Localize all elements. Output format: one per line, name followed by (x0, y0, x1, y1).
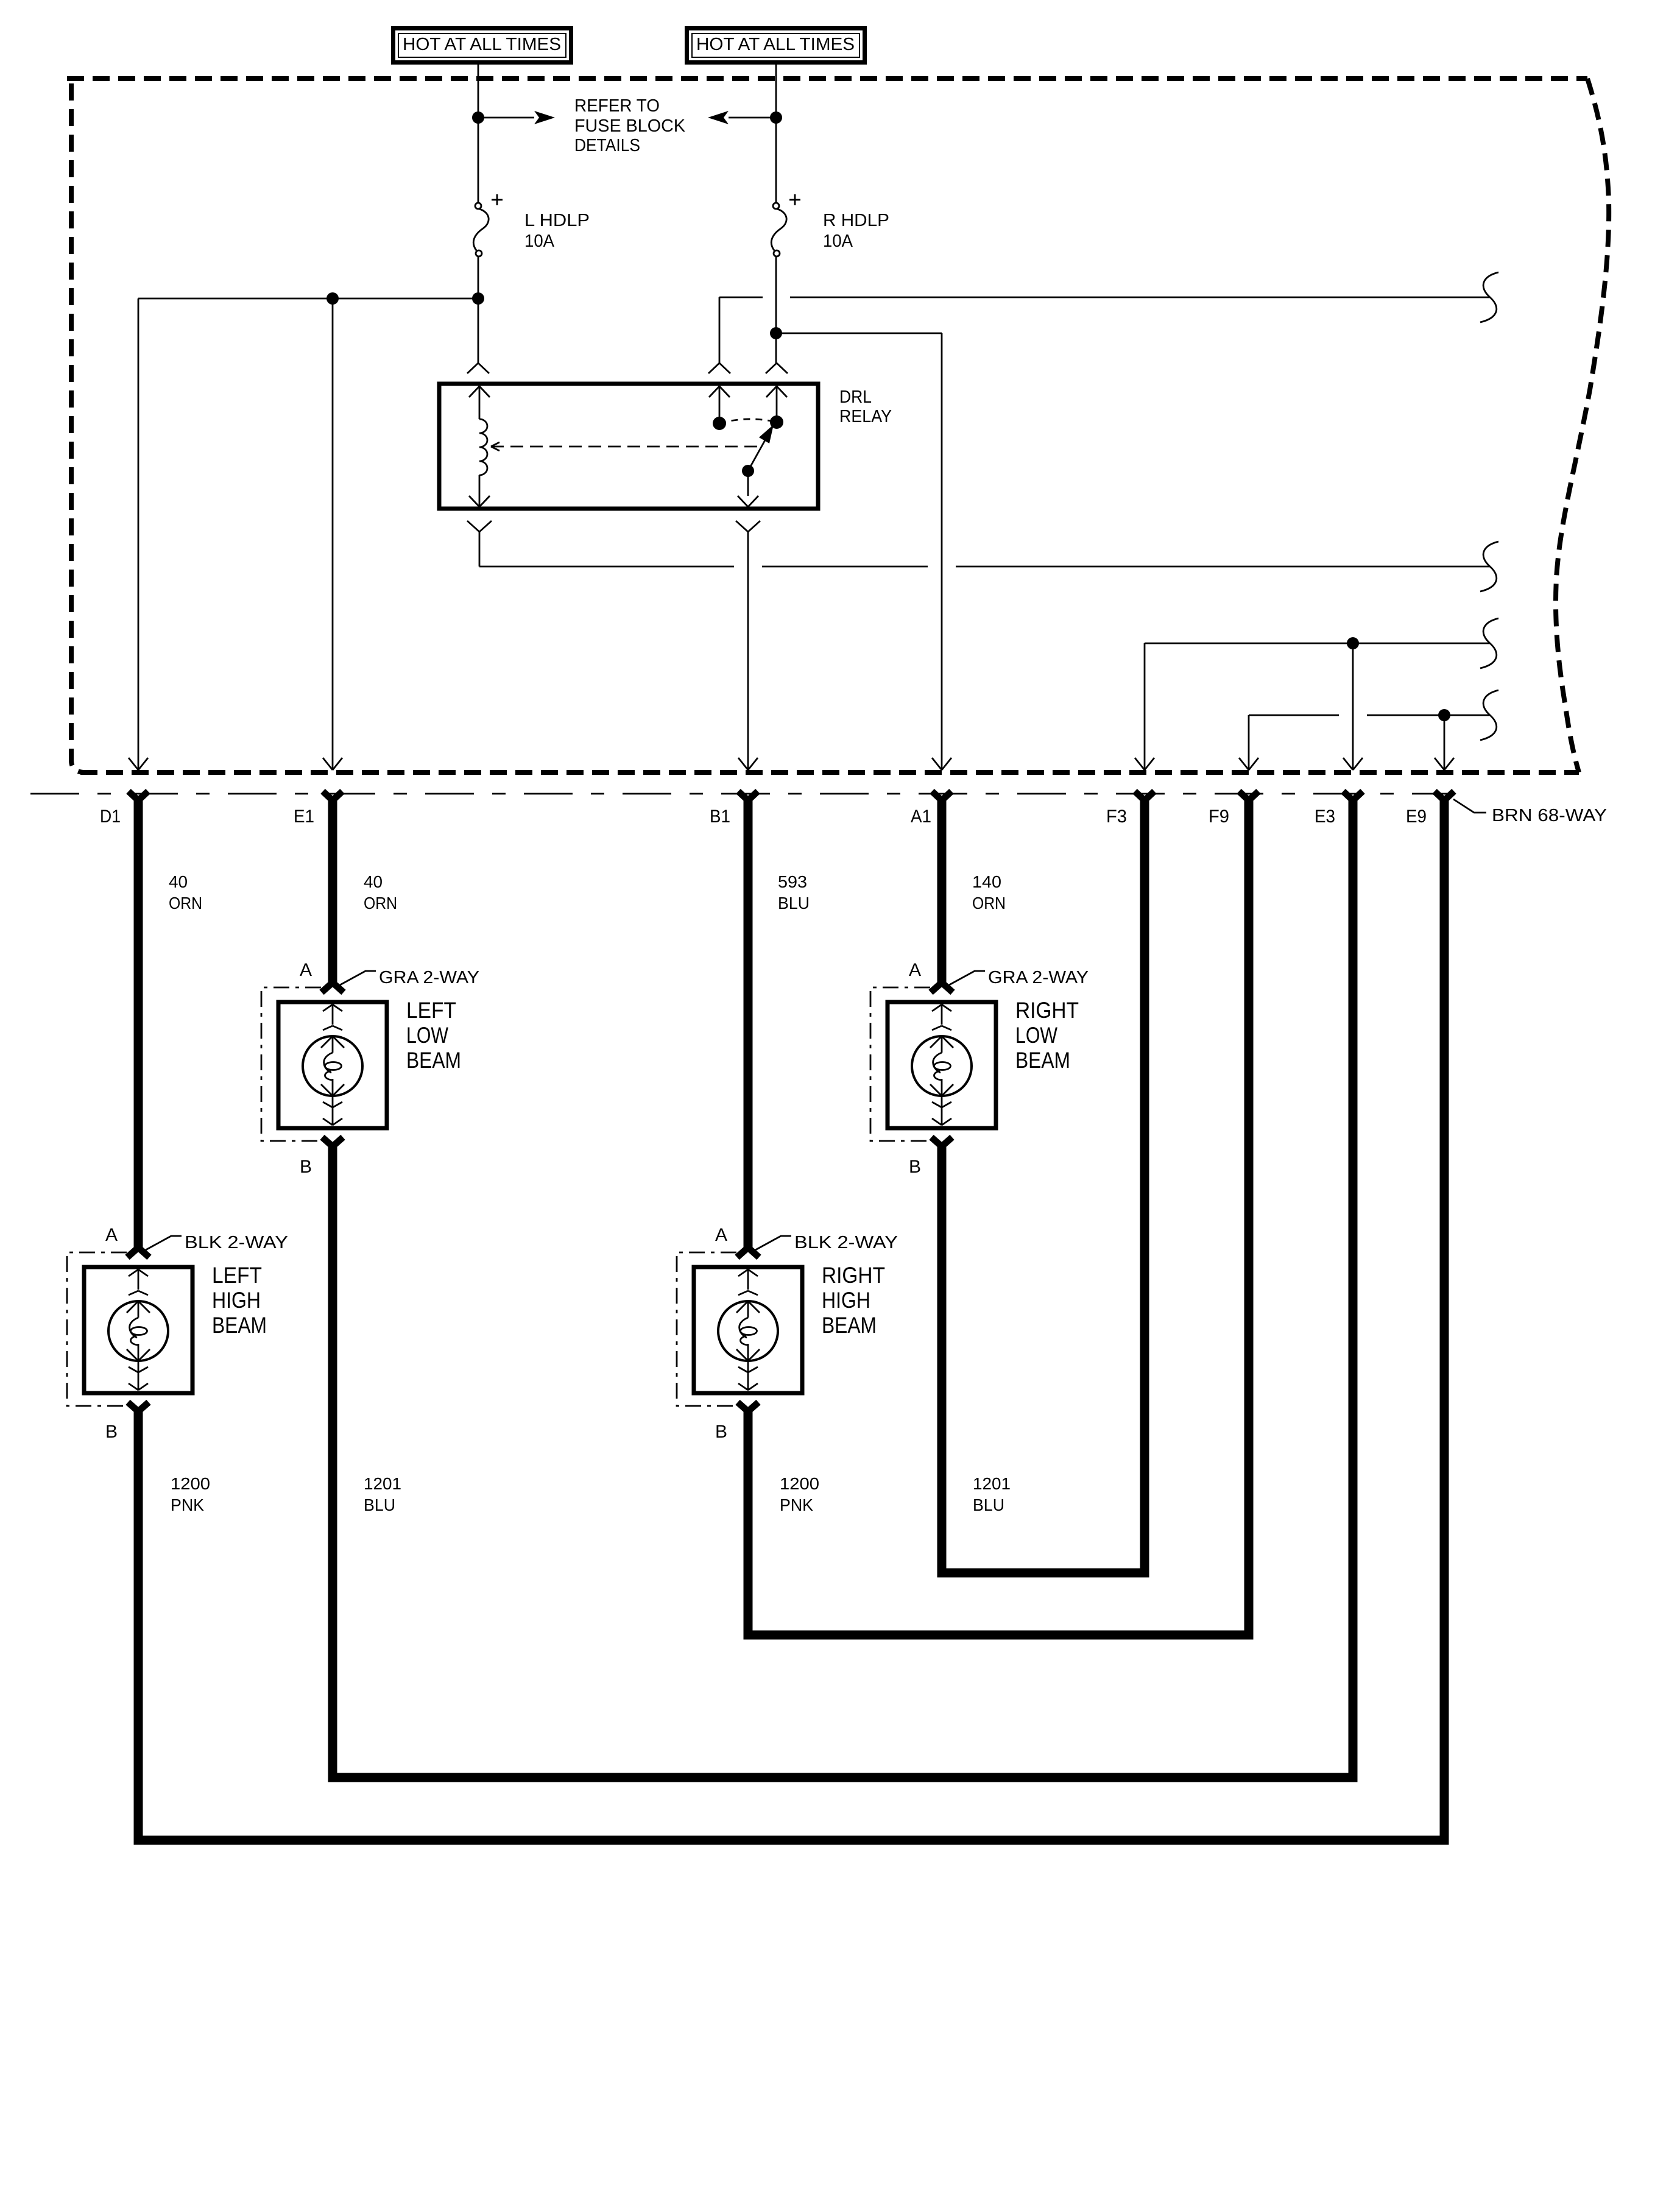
svg-text:DRL: DRL (839, 387, 872, 407)
svg-text:LEFT: LEFT (212, 1263, 262, 1288)
svg-text:593: 593 (778, 872, 807, 891)
svg-text:REFER TO: REFER TO (574, 96, 660, 116)
svg-text:E3: E3 (1315, 807, 1335, 827)
svg-text:R HDLP: R HDLP (823, 211, 889, 230)
svg-text:10A: 10A (524, 231, 555, 251)
svg-text:BLU: BLU (364, 1495, 395, 1514)
svg-text:LOW: LOW (1015, 1023, 1057, 1048)
svg-text:BEAM: BEAM (822, 1313, 877, 1338)
svg-text:A: A (715, 1225, 727, 1245)
svg-text:PNK: PNK (780, 1495, 813, 1514)
svg-text:HOT AT ALL TIMES: HOT AT ALL TIMES (696, 35, 855, 54)
svg-text:F3: F3 (1106, 807, 1127, 827)
svg-text:BLK 2-WAY: BLK 2-WAY (185, 1233, 288, 1252)
svg-text:PNK: PNK (171, 1495, 204, 1514)
svg-text:E1: E1 (294, 807, 314, 827)
svg-text:40: 40 (364, 872, 383, 891)
svg-text:GRA 2-WAY: GRA 2-WAY (988, 968, 1089, 987)
svg-text:DETAILS: DETAILS (574, 136, 640, 155)
svg-text:BLU: BLU (973, 1495, 1004, 1514)
svg-text:L HDLP: L HDLP (524, 211, 590, 230)
svg-text:RELAY: RELAY (839, 407, 892, 426)
svg-text:ORN: ORN (364, 894, 397, 913)
svg-text:1200: 1200 (780, 1474, 819, 1493)
svg-text:A1: A1 (911, 807, 931, 827)
svg-text:RIGHT: RIGHT (822, 1263, 885, 1288)
svg-text:1201: 1201 (973, 1474, 1011, 1493)
svg-text:HIGH: HIGH (822, 1288, 870, 1313)
svg-text:ORN: ORN (972, 894, 1006, 913)
svg-text:B: B (300, 1157, 312, 1177)
svg-text:BLU: BLU (778, 894, 810, 913)
svg-text:10A: 10A (823, 231, 853, 251)
svg-text:E9: E9 (1406, 807, 1427, 827)
svg-text:B: B (715, 1422, 727, 1442)
svg-text:1200: 1200 (171, 1474, 210, 1493)
svg-text:LOW: LOW (406, 1023, 448, 1048)
svg-text:B: B (909, 1157, 921, 1177)
svg-text:F9: F9 (1209, 807, 1229, 827)
svg-text:LEFT: LEFT (406, 998, 456, 1023)
svg-text:HIGH: HIGH (212, 1288, 261, 1313)
svg-text:RIGHT: RIGHT (1015, 998, 1079, 1023)
svg-text:D1: D1 (100, 807, 121, 827)
svg-text:B: B (105, 1422, 118, 1442)
svg-text:BEAM: BEAM (406, 1048, 461, 1073)
svg-text:BEAM: BEAM (1015, 1048, 1070, 1073)
svg-text:A: A (300, 960, 312, 980)
svg-text:BRN 68-WAY: BRN 68-WAY (1492, 806, 1607, 825)
svg-text:FUSE BLOCK: FUSE BLOCK (574, 116, 686, 136)
svg-text:A: A (909, 960, 921, 980)
svg-text:A: A (105, 1225, 118, 1245)
svg-text:140: 140 (972, 872, 1001, 891)
svg-text:BLK 2-WAY: BLK 2-WAY (794, 1233, 898, 1252)
svg-text:1201: 1201 (364, 1474, 401, 1493)
svg-text:GRA 2-WAY: GRA 2-WAY (379, 968, 479, 987)
svg-text:HOT AT ALL TIMES: HOT AT ALL TIMES (403, 35, 561, 54)
svg-text:BEAM: BEAM (212, 1313, 267, 1338)
svg-text:B1: B1 (710, 807, 730, 827)
svg-text:40: 40 (169, 872, 188, 891)
svg-text:ORN: ORN (169, 894, 202, 913)
